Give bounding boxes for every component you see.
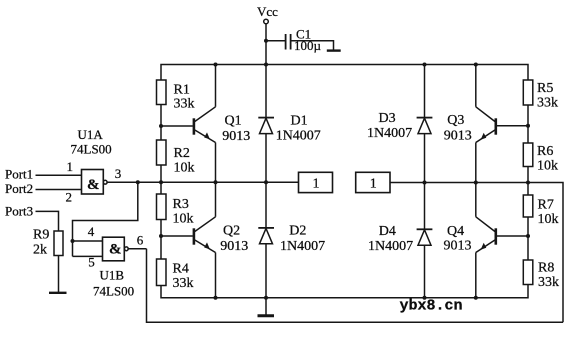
node dots: [71, 39, 531, 300]
svg-text:R3: R3: [173, 197, 189, 212]
svg-text:3: 3: [115, 166, 122, 181]
node Q2 base junction: [159, 234, 163, 238]
svg-text:33k: 33k: [538, 275, 559, 290]
wire pin4 lead: [73, 240, 103, 242]
wire bottom return (pin6 net): [147, 249, 564, 322]
svg-text:Port1: Port1: [5, 167, 33, 182]
resistor R5: [523, 80, 533, 105]
Vcc terminal: [264, 19, 269, 24]
transistor Q3: [476, 65, 496, 183]
svg-text:ybx8.cn: ybx8.cn: [400, 298, 463, 315]
resistor R9: [54, 231, 63, 256]
svg-text:Q1: Q1: [225, 114, 242, 129]
node top rail x424: [423, 63, 427, 67]
resistor R1: [157, 80, 167, 105]
wire pin1 (Port1 to U1A): [36, 174, 82, 176]
resistor R4: [157, 259, 167, 286]
svg-text:10k: 10k: [174, 161, 195, 176]
svg-text:1N4007: 1N4007: [368, 239, 413, 254]
wire Vcc drop: [265, 24, 267, 65]
svg-text:Port2: Port2: [5, 181, 33, 196]
wire R6-rail: [527, 167, 529, 196]
svg-text:Q4: Q4: [447, 224, 464, 239]
svg-text:U1A: U1A: [78, 127, 104, 142]
svg-text:D3: D3: [379, 111, 396, 126]
svg-text:9013: 9013: [444, 239, 472, 254]
node top rail x215: [214, 63, 218, 67]
wire pin2 (Port2 to U1A): [36, 189, 82, 191]
node mid rail x424: [423, 181, 427, 185]
svg-text:D2: D2: [289, 224, 306, 239]
resistor R3: [157, 194, 167, 220]
svg-text:33k: 33k: [537, 96, 558, 111]
svg-text:10k: 10k: [537, 159, 558, 174]
resistor R2: [157, 140, 167, 165]
svg-text:D4: D4: [379, 224, 396, 239]
node mid rail x215: [214, 180, 218, 184]
svg-text:1N4007: 1N4007: [280, 239, 325, 254]
svg-text:1: 1: [370, 177, 377, 192]
resistor R8: [523, 260, 533, 285]
svg-text:R8: R8: [538, 261, 554, 276]
svg-text:1: 1: [67, 159, 74, 174]
wire Port3 lead: [36, 211, 59, 231]
svg-text:33k: 33k: [174, 97, 195, 112]
wire R7-R8: [527, 217, 529, 260]
node bottom rail x424: [423, 296, 427, 300]
svg-text:R1: R1: [174, 83, 190, 98]
svg-text:Vcc: Vcc: [257, 4, 278, 19]
svg-text:R9: R9: [33, 228, 49, 243]
svg-text:Q3: Q3: [447, 113, 464, 128]
svg-text:10k: 10k: [538, 212, 559, 227]
svg-text:&: &: [109, 242, 122, 258]
svg-text:1N4007: 1N4007: [276, 129, 321, 144]
svg-text:9013: 9013: [222, 129, 250, 144]
wire U1B feedback (pin3 node down to inputs): [73, 182, 138, 256]
node Q3 base junction: [526, 124, 530, 128]
node bottom rail x476: [474, 296, 478, 300]
svg-text:74LS00: 74LS00: [93, 284, 134, 299]
svg-text:R4: R4: [173, 262, 189, 277]
wire Q2 base lead: [161, 235, 193, 237]
svg-text:2: 2: [66, 190, 73, 205]
svg-text:D1: D1: [291, 114, 308, 129]
diode D4: [417, 183, 433, 298]
svg-text:9013: 9013: [220, 239, 248, 254]
svg-text:5: 5: [88, 255, 95, 270]
node Q4 base junction: [526, 234, 530, 238]
wire R2-rail: [160, 165, 162, 194]
diode D2: [258, 182, 274, 298]
wire mid-left rail (node A: pin3 to box1): [107, 181, 298, 183]
node top rail x266: [264, 63, 268, 67]
resistor R6: [523, 143, 533, 167]
svg-text:74LS00: 74LS00: [71, 142, 112, 157]
svg-text:33k: 33k: [173, 276, 194, 291]
ground (C1): [327, 49, 341, 51]
node mid rail x528: [526, 181, 530, 185]
wire mid-right rail (node B: box2 to right side): [390, 183, 563, 323]
ground (main): [258, 298, 275, 316]
node mid rail x476: [474, 181, 478, 185]
node Q1 base junction: [159, 124, 163, 128]
wire top rail: [161, 65, 528, 81]
diode D3: [417, 65, 433, 183]
node pin3 feedback tap: [136, 180, 140, 184]
transistor Q2: [194, 182, 216, 298]
node bottom rail x266: [264, 296, 268, 300]
resistor R7: [523, 195, 533, 217]
svg-text:1N4007: 1N4007: [367, 126, 412, 141]
ground (R9): [49, 292, 67, 294]
wire Q3 base lead: [497, 125, 528, 127]
transistor Q4: [476, 183, 496, 298]
wire pin5 lead: [73, 255, 103, 257]
svg-text:R7: R7: [538, 198, 554, 213]
svg-text:&: &: [87, 177, 100, 193]
wire bottom rail: [161, 285, 528, 298]
op-amp U1A (NAND gate body): [82, 170, 104, 195]
svg-text:R6: R6: [537, 144, 553, 159]
node mid rail x161: [159, 180, 163, 184]
svg-text:10k: 10k: [173, 212, 194, 227]
wire R3-R4: [160, 220, 162, 260]
svg-text:R5: R5: [537, 81, 553, 96]
wire C1 left lead: [266, 40, 285, 42]
U1A output bubble: [103, 180, 107, 184]
wire R5-R6: [527, 105, 529, 143]
diode D1: [258, 65, 274, 183]
svg-text:6: 6: [137, 232, 144, 247]
wire C1 right lead: [291, 41, 334, 51]
svg-text:100µ: 100µ: [294, 38, 322, 53]
connector box 1 (right): [356, 172, 390, 192]
node mid rail x266: [264, 180, 268, 184]
svg-text:Port3: Port3: [5, 203, 33, 218]
node Vcc/C1 tap: [264, 39, 268, 43]
transistor Q1: [194, 65, 216, 183]
wire R1-R2: [160, 105, 162, 141]
svg-text:9013: 9013: [444, 129, 472, 144]
connector box 1 (left): [299, 172, 333, 192]
wire pin6 lead: [128, 248, 146, 250]
op-amp U1B (NAND gate body): [103, 237, 125, 261]
svg-text:1: 1: [313, 177, 320, 192]
node U1B input tie: [71, 239, 75, 243]
U1B output bubble: [124, 247, 128, 251]
svg-text:4: 4: [88, 224, 95, 239]
node bottom rail x215: [214, 296, 218, 300]
wire Q4 base lead: [497, 235, 528, 237]
node top rail x476: [474, 63, 478, 67]
svg-text:Q2: Q2: [223, 224, 240, 239]
svg-text:2k: 2k: [33, 243, 47, 258]
wire Q1 base lead: [161, 125, 193, 127]
svg-text:R2: R2: [174, 146, 190, 161]
capacitor C1: [286, 34, 291, 50]
wire R9 bottom: [58, 256, 60, 293]
svg-text:U1B: U1B: [100, 268, 125, 283]
